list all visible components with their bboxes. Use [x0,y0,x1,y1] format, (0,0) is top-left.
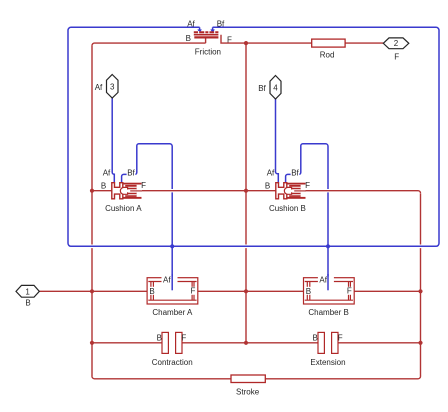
block: Cushion A icon [112,183,142,199]
port 1 hexagon [16,285,39,297]
svg-text:Af: Af [95,83,103,92]
svg-text:F: F [141,181,146,190]
wire: red vertical net B left (x=92) [91,46,93,376]
svg-text:Friction: Friction [195,48,221,57]
wire: cushion row left [92,190,112,192]
wire: port 4 to cushion B Af [276,99,279,183]
node: blue junction dot chamber A [170,244,174,248]
node: junction hard stop row / mid vertical [244,341,248,345]
svg-text:Chamber B: Chamber B [308,308,348,317]
svg-text:4: 4 [273,83,278,92]
wire: blue conserving loop box (white casing) [68,27,439,246]
wire: cushion B Bf loop down to chamber B [286,144,328,290]
wire: port 3 to cushion A Af [112,98,114,183]
wire: red vertical right (x=420.5) [420,194,422,377]
wire: red vertical mid (x=246) [245,43,247,343]
svg-text:B: B [265,181,270,190]
block: Chamber A icon [147,274,198,304]
label Cushion A Bf [127,169,136,176]
svg-text:Af: Af [187,19,195,28]
corner top-left red [92,43,95,46]
svg-text:1: 1 [25,287,30,296]
wire: chamber row mid [198,290,304,292]
svg-text:Af: Af [163,276,171,285]
node: junction friction F / mid vertical [244,41,248,45]
port 2 hexagon [383,38,409,49]
svg-text:3: 3 [110,82,115,91]
svg-text:F: F [190,287,195,296]
wire: hard stop row right [338,342,421,344]
label Cushion B Bf [291,169,300,176]
svg-text:B: B [306,287,311,296]
node: junction hard stop row / left vertical [90,341,94,345]
block: Contraction hard stop [162,332,182,353]
node: junction chamber row / mid vertical [244,289,248,293]
svg-text:F: F [305,181,310,190]
block: Rod [312,39,345,47]
node: junction cushion row / left vertical [90,189,94,193]
block: Chamber B icon [304,274,355,304]
wire: cushion A Bf loop down to chamber A [122,144,173,290]
svg-text:B: B [157,333,162,342]
node: junction cushion row / mid vertical [244,189,248,193]
svg-text:Stroke: Stroke [236,388,260,397]
svg-text:F: F [338,333,343,342]
port 3 hexagon [107,75,119,99]
block: Friction icon [194,31,219,37]
svg-text:F: F [394,53,399,62]
svg-text:F: F [181,333,186,342]
svg-text:Contraction: Contraction [152,358,193,367]
svg-text:B: B [186,34,191,43]
wire: chamber row right [353,290,421,292]
svg-text:2: 2 [394,39,399,48]
wire: stroke row bottom [92,376,421,379]
svg-text:B: B [25,299,30,308]
wire: cushion row (casing) [142,189,418,192]
svg-text:Cushion B: Cushion B [269,204,306,213]
block: Cushion B icon [276,183,306,199]
port 4 hexagon [270,76,281,100]
node: junction hard stop row / right vertical [418,341,422,345]
block: Extension hard stop [318,332,338,353]
wire: chamber row from port 1 [39,290,147,292]
svg-text:B: B [149,287,154,296]
wire: cushion row right with corner [306,191,421,194]
svg-text:Rod: Rod [320,51,335,60]
wire: friction row B segment [95,39,206,44]
svg-text:Bf: Bf [291,168,299,177]
svg-text:Bf: Bf [127,168,135,177]
arrow into friction Bf [210,27,214,33]
node: junction chamber row / right vertical [418,289,422,293]
svg-text:Chamber A: Chamber A [152,308,193,317]
arrow into friction Af [197,27,201,33]
block: Stroke [231,375,265,383]
svg-text:Bf: Bf [258,84,266,93]
svg-text:F: F [227,35,232,44]
node: junction chamber row / left vertical [90,289,94,293]
svg-text:B: B [101,181,106,190]
svg-text:F: F [347,287,352,296]
node: blue junction dot chamber B [326,244,330,248]
svg-text:Cushion A: Cushion A [105,204,142,213]
wire: hard stop row left [92,342,162,344]
wire: blue conserving loop box [68,27,439,246]
svg-text:Af: Af [319,276,327,285]
svg-text:Bf: Bf [217,19,225,28]
wire: cushion row mid [142,190,276,192]
svg-text:Extension: Extension [310,358,345,367]
wire: friction row F segment to rod and port 2 [221,35,383,43]
wire: hard stop row mid [182,342,318,344]
svg-text:Af: Af [267,169,275,178]
svg-text:B: B [313,333,318,342]
svg-text:Af: Af [103,169,111,178]
